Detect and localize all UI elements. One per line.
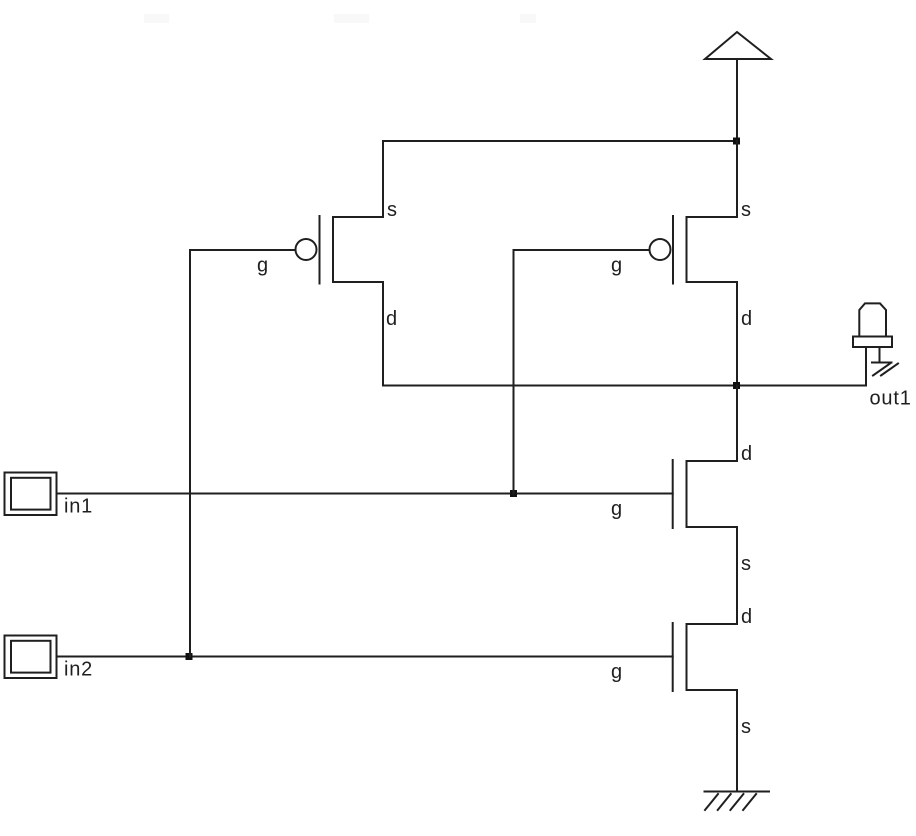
svg-text:in1: in1 [64, 496, 93, 518]
svg-text:d: d [386, 308, 397, 330]
faint toolbar artifact marks (top edge) [144, 14, 536, 23]
svg-text:g: g [611, 255, 622, 277]
wire output net (out1 rail) [383, 385, 866, 387]
transistor M2 (PMOS) [650, 216, 738, 284]
wire in2 net (pin to M4 gate) [57, 656, 672, 658]
LED ground tick [872, 363, 898, 376]
pin in1 (input connector) [5, 473, 57, 516]
wire M2 gate lead [514, 249, 650, 251]
svg-text:s: s [741, 199, 751, 221]
wire M1 gate lead [190, 249, 296, 251]
svg-text:d: d [741, 606, 752, 628]
wire M2 drain lead [736, 282, 738, 386]
svg-text:d: d [741, 443, 752, 465]
svg-text:out1: out1 [870, 388, 912, 410]
junction in1 node [510, 490, 517, 497]
ground symbol [705, 792, 770, 811]
svg-text:in2: in2 [64, 659, 93, 681]
junction VDD node [733, 138, 740, 145]
wire left vertical (in2 net to M1 gate) [189, 250, 191, 657]
LED indicator out1 [853, 303, 892, 385]
wire in1 net (pin to M3 gate) [57, 493, 672, 495]
transistor M4 (NMOS) [673, 623, 737, 691]
wire M2 source lead [736, 141, 738, 217]
wire M1 source lead [382, 141, 384, 217]
wire M1 drain lead [382, 282, 384, 386]
svg-text:g: g [611, 498, 622, 520]
wire M3 source to M4 drain [736, 527, 738, 624]
wire VDD rail [383, 140, 737, 142]
transistor M1 (PMOS) [296, 216, 384, 284]
svg-text:d: d [741, 308, 752, 330]
wire mid vertical (in1 net to M2 gate) [513, 250, 515, 494]
svg-text:s: s [741, 716, 751, 738]
svg-text:s: s [741, 553, 751, 575]
junction out1 node [733, 382, 740, 389]
pin in2 (input connector) [5, 636, 57, 679]
junction in2 node [186, 653, 193, 660]
power supply VDD symbol [705, 32, 771, 141]
wire M4 source lead [736, 690, 738, 792]
svg-text:g: g [257, 255, 268, 277]
svg-text:g: g [611, 661, 622, 683]
svg-text:s: s [387, 199, 397, 221]
transistor M3 (NMOS) [673, 460, 737, 528]
wire M3 drain lead [736, 386, 738, 462]
